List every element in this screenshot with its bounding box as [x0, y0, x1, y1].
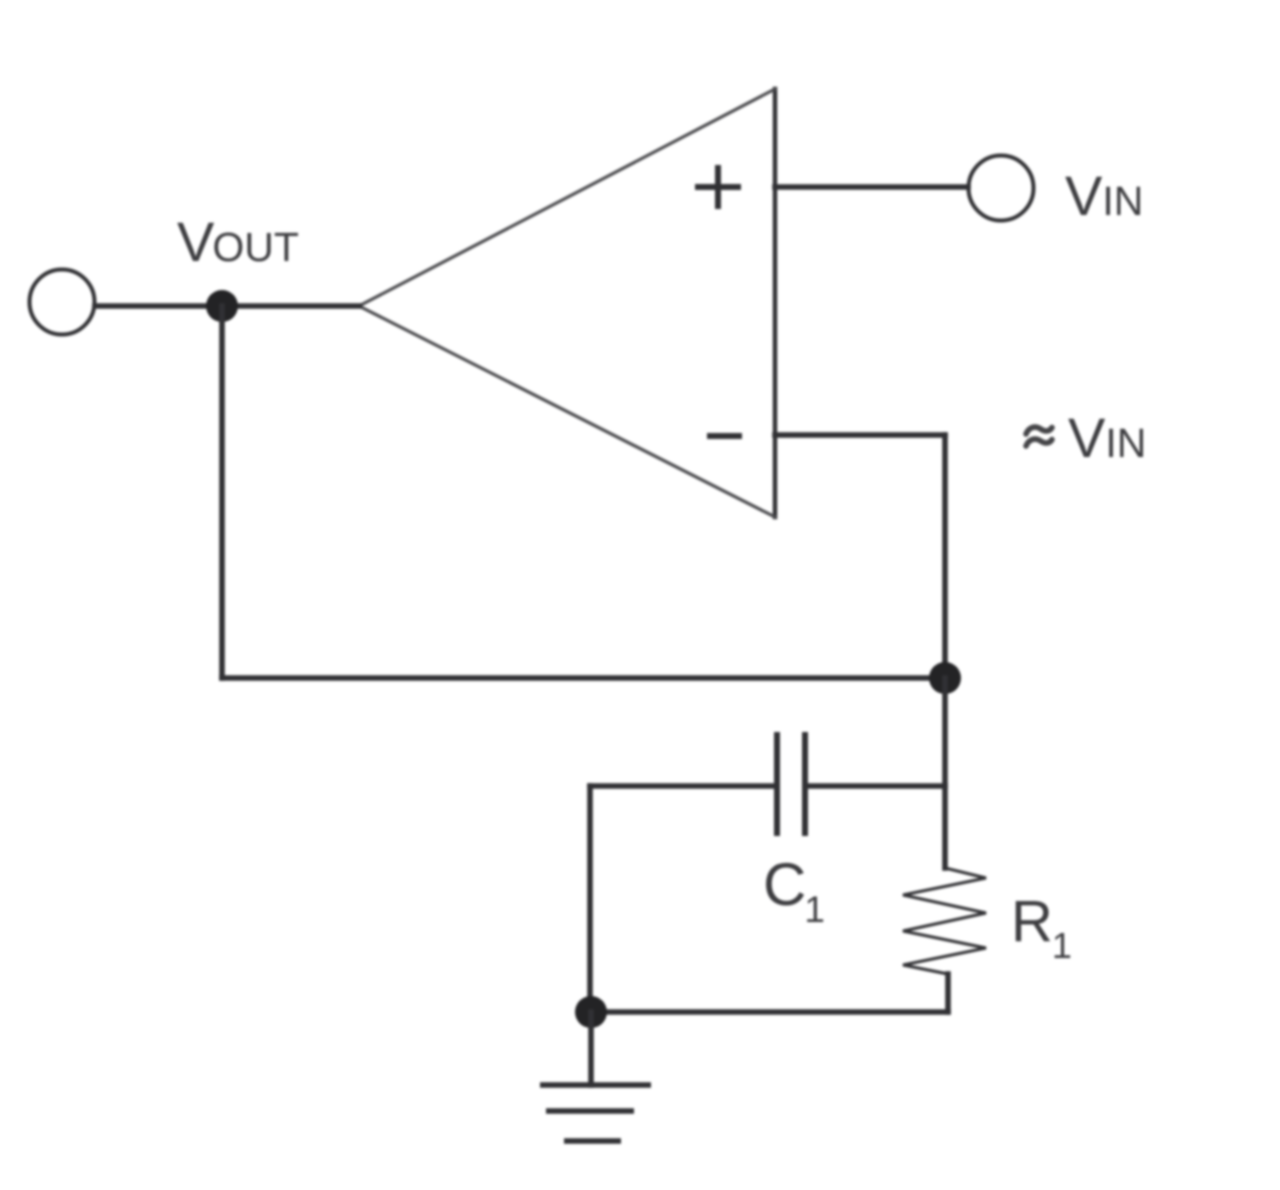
op-amp U1: [359, 89, 775, 517]
wire bottom horizontal to ground node: [591, 1009, 948, 1015]
resistor R1: [903, 868, 986, 974]
wire inverting input right: [775, 432, 945, 438]
svg-text:VOUT: VOUT: [177, 210, 299, 273]
ground: [540, 1085, 651, 1141]
capacitor C1: [777, 732, 805, 836]
wire ground stem: [588, 1012, 594, 1085]
node VOUT junction: [206, 290, 238, 322]
wire R1 bottom lead: [945, 974, 951, 1012]
node feedback junction: [929, 662, 961, 694]
terminal VIN: [969, 156, 1034, 221]
wire inverting input down to feedback node: [942, 435, 948, 678]
op-amp noninverting input label +: [695, 165, 741, 209]
wire C1 left plate to left branch: [590, 783, 777, 789]
wire feedback node down to R1 top: [942, 678, 948, 868]
terminal VOUT: [30, 270, 95, 335]
wire left branch down: [587, 786, 593, 1012]
wire C1 right plate to vertical: [805, 783, 945, 789]
wire op-amp output: [95, 303, 359, 309]
wire feedback horizontal: [222, 675, 945, 681]
label approx VIN: [1026, 427, 1052, 446]
svg-text:R1: R1: [1011, 889, 1072, 966]
svg-text:VIN: VIN: [1068, 406, 1146, 469]
wire VOUT node down: [219, 306, 225, 678]
wire noninverting input to VIN terminal: [775, 184, 968, 190]
svg-text:VIN: VIN: [1065, 164, 1143, 227]
op-amp inverting input label −: [707, 433, 742, 439]
node ground junction: [575, 996, 607, 1028]
svg-text:C1: C1: [763, 851, 825, 930]
